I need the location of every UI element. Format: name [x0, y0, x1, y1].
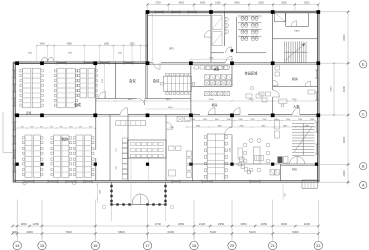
- svg-text:2860: 2860: [283, 125, 287, 127]
- svg-text:4050: 4050: [67, 43, 73, 45]
- svg-text:2860: 2860: [239, 125, 243, 127]
- svg-text:宣传: 宣传: [26, 111, 32, 115]
- svg-text:1560: 1560: [298, 119, 302, 121]
- svg-text:3000: 3000: [281, 2, 287, 5]
- svg-text:2400: 2400: [200, 2, 206, 5]
- svg-text:1560: 1560: [250, 119, 254, 121]
- svg-text:3800: 3800: [128, 99, 134, 101]
- svg-text:1560: 1560: [203, 119, 207, 121]
- svg-text:7000: 7000: [65, 230, 72, 234]
- svg-text:FRD: FRD: [292, 169, 297, 172]
- svg-text:2860: 2860: [218, 125, 222, 127]
- svg-text:会议: 会议: [129, 78, 136, 83]
- svg-text:15: 15: [40, 243, 44, 248]
- svg-text:1560: 1560: [286, 119, 290, 121]
- svg-text:1360: 1360: [229, 148, 231, 152]
- svg-text:5240: 5240: [28, 53, 32, 55]
- svg-text:休息区域: 休息区域: [245, 71, 259, 76]
- svg-text:2130: 2130: [199, 222, 206, 226]
- svg-text:人事: 人事: [293, 104, 300, 109]
- svg-text:3200: 3200: [68, 53, 72, 55]
- svg-text:2150: 2150: [169, 127, 173, 129]
- svg-text:1900: 1900: [215, 2, 221, 5]
- svg-text:1650: 1650: [20, 222, 27, 226]
- svg-text:2250: 2250: [116, 148, 118, 152]
- svg-text:2200: 2200: [304, 222, 311, 226]
- svg-text:5100: 5100: [249, 230, 256, 234]
- svg-text:22: 22: [316, 243, 320, 248]
- svg-text:2750: 2750: [292, 99, 298, 101]
- svg-text:975: 975: [21, 126, 24, 128]
- svg-text:会议: 会议: [153, 78, 160, 83]
- svg-text:C: C: [362, 112, 365, 116]
- svg-text:1440: 1440: [40, 43, 46, 45]
- svg-text:机房: 机房: [212, 102, 218, 107]
- svg-text:975: 975: [50, 126, 53, 128]
- svg-text:16: 16: [93, 243, 97, 248]
- svg-text:975: 975: [60, 126, 63, 128]
- svg-text:3000: 3000: [281, 222, 288, 226]
- svg-text:3300: 3300: [26, 230, 33, 234]
- svg-text:1560: 1560: [215, 119, 219, 121]
- svg-text:合成: 合成: [74, 102, 81, 107]
- svg-text:1800: 1800: [116, 166, 118, 170]
- svg-text:6000: 6000: [292, 230, 299, 234]
- svg-text:6000: 6000: [342, 86, 346, 93]
- svg-text:21: 21: [271, 243, 275, 248]
- svg-text:18: 18: [192, 243, 196, 248]
- svg-text:4000: 4000: [118, 53, 122, 55]
- svg-text:UPS: UPS: [169, 47, 174, 50]
- svg-text:2730: 2730: [155, 2, 161, 5]
- svg-text:750: 750: [285, 193, 287, 196]
- svg-text:2730: 2730: [155, 222, 162, 226]
- svg-text:3450: 3450: [178, 222, 185, 226]
- svg-text:3000: 3000: [304, 2, 310, 5]
- svg-text:1560: 1560: [191, 119, 195, 121]
- svg-text:2300: 2300: [342, 170, 346, 177]
- svg-text:1560: 1560: [310, 119, 314, 121]
- svg-text:5100: 5100: [210, 230, 217, 234]
- svg-text:1860: 1860: [104, 43, 110, 45]
- svg-text:2250: 2250: [129, 43, 135, 45]
- svg-text:3050: 3050: [240, 222, 247, 226]
- svg-text:975: 975: [69, 126, 72, 128]
- svg-text:2450: 2450: [249, 99, 255, 101]
- svg-text:5100: 5100: [209, 99, 215, 101]
- svg-text:2250: 2250: [33, 222, 40, 226]
- svg-text:机房: 机房: [292, 76, 298, 81]
- svg-text:3450: 3450: [179, 2, 185, 5]
- svg-text:2950: 2950: [218, 222, 225, 226]
- svg-text:6000: 6000: [331, 86, 333, 92]
- svg-text:PAX2: PAX2: [294, 30, 300, 33]
- svg-text:1560: 1560: [262, 119, 266, 121]
- svg-text:1560: 1560: [226, 119, 230, 121]
- svg-text:3300: 3300: [258, 2, 264, 5]
- svg-text:975: 975: [40, 126, 43, 128]
- svg-text:600: 600: [12, 230, 17, 234]
- svg-text:2860: 2860: [261, 125, 265, 127]
- svg-text:3800: 3800: [166, 99, 172, 101]
- svg-text:2860: 2860: [305, 125, 309, 127]
- svg-text:机房: 机房: [214, 66, 220, 71]
- svg-text:17: 17: [145, 243, 149, 248]
- svg-text:6600: 6600: [118, 230, 125, 234]
- svg-text:5400: 5400: [168, 107, 174, 109]
- svg-text:6000: 6000: [342, 34, 346, 41]
- svg-text:3150: 3150: [102, 79, 104, 83]
- svg-text:975: 975: [30, 126, 33, 128]
- svg-text:2860: 2860: [196, 125, 200, 127]
- svg-text:6000: 6000: [168, 230, 175, 234]
- svg-text:制作: 制作: [62, 137, 69, 142]
- svg-text:1500: 1500: [99, 190, 101, 194]
- svg-text:6000: 6000: [342, 136, 346, 143]
- svg-text:3400: 3400: [234, 2, 240, 5]
- svg-text:2050: 2050: [261, 222, 268, 226]
- svg-text:975: 975: [79, 126, 82, 128]
- svg-text:975: 975: [89, 126, 92, 128]
- svg-text:1560: 1560: [238, 119, 242, 121]
